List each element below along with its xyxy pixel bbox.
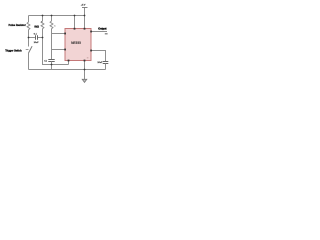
svg-text:10uF: 10uF [34,42,40,44]
pin IC right output [90,31,92,33]
svg-text:10nF: 10nF [97,62,103,64]
wire coupling cap branch right [38,37,43,39]
node innerrail-capcol [51,64,53,66]
pin IC left lower [64,49,66,51]
wire branch to IC pin left upper [52,33,66,35]
op IC U1 NE555 body [65,29,91,61]
wire branch to IC pin left lower [52,49,66,51]
power VCC bar [82,7,88,9]
wire outer ground rail [29,69,106,71]
capacitor C2 plate 2 [37,35,39,39]
node rail-vcc [84,15,86,17]
wire column R3 down to cap [51,29,53,60]
junction dots [28,15,92,71]
capacitor C1 bottom plate [48,61,54,63]
wire ground drop [84,61,86,80]
wire cap C1 to rails [51,62,53,70]
switch S1 blade [29,46,33,53]
pin IC top 1 [74,28,76,30]
pin IC left upper [64,33,66,35]
pin IC top 2 [84,28,86,30]
wire column R2 upper [42,16,44,22]
svg-text:+5 V: +5 V [81,5,86,7]
wire column A mid [28,30,30,47]
wire inner rail riser to IC pin [68,61,70,65]
resistor R2 [41,21,44,29]
wire column A upper [28,16,30,23]
wire column R3 upper [51,16,53,22]
svg-text:NE555: NE555 [71,41,81,45]
wire coupling cap branch left [29,37,35,39]
pin IC right lower [90,50,92,52]
wire column A lower [28,53,30,70]
svg-text:Trigger Switch: Trigger Switch [5,49,22,52]
switch S1 actuator tick [26,49,29,51]
capacitor C2 plate 1 [35,35,37,39]
wire IC top pin drop [74,16,76,29]
node colA-cap [28,37,30,39]
wire top rail [29,15,85,17]
ground symbol [82,79,87,82]
node R2col-cap [42,37,44,39]
capacitor C3 bottom plate [103,63,109,65]
IC U1 pin number mark [87,57,89,58]
svg-text:1k: 1k [41,22,43,24]
pin IC bottom 1 [68,60,70,62]
wire column R2 lower [43,29,69,65]
resistor R3 [50,21,53,29]
capacitor C3 top plate [103,61,109,63]
wire IC right pin to C3 [91,51,106,62]
svg-text:9kΩ: 9kΩ [34,26,39,29]
power VCC riser [84,8,86,29]
svg-text:Output: Output [98,28,106,31]
node rail-R2 [42,15,44,17]
wire output [91,31,107,33]
svg-text:Pulse Resistor: Pulse Resistor [9,24,26,27]
node ground junction [84,69,86,71]
label output terminal [105,33,108,34]
resistor R1 [27,22,30,30]
capacitor C1 top plate [48,59,54,61]
svg-text:1k: 1k [54,25,56,27]
node rail-R3 [51,15,53,17]
node rail-pin drop [74,15,76,17]
wire C3 to ground rail [105,64,107,70]
pin IC bottom 2 [84,60,86,62]
